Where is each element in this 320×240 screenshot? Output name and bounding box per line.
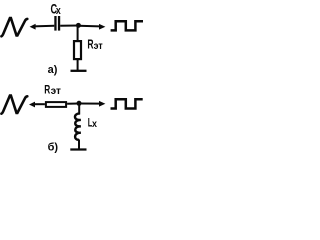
svg-text:а): а) <box>48 64 58 76</box>
capacitor C_x plates <box>54 16 56 31</box>
svg-text:x: x <box>56 5 61 17</box>
svg-text:эт: эт <box>51 86 61 97</box>
svg-text:x: x <box>92 118 97 130</box>
wire with right arrow to output (top) <box>78 25 99 28</box>
wire: resistor to node (bottom) <box>67 103 79 105</box>
wire: node down to resistor (top) <box>77 26 79 41</box>
inductor L_x coil <box>75 114 81 140</box>
ground (top) <box>71 70 87 72</box>
square-wave (meander) output icon (top) <box>111 21 143 30</box>
label R эт (bottom) <box>44 84 51 97</box>
wire: node down to inductor (bottom) <box>78 104 80 115</box>
wire: generator to capacitor (top) <box>34 25 55 28</box>
ground (bottom) <box>70 148 86 150</box>
label L x <box>88 117 93 130</box>
resistor R_эт (vertical) <box>74 41 81 59</box>
resistor R_эт (horizontal) <box>46 102 66 107</box>
wire: inductor to ground (bottom) <box>78 140 80 149</box>
label Cx <box>51 3 58 17</box>
wire: resistor to ground (top) <box>77 59 79 70</box>
svg-text:эт: эт <box>94 40 103 52</box>
node junction dot (top) <box>76 23 81 28</box>
arrowhead pointing left at generator <box>30 24 36 30</box>
wire with right arrow to output (bottom) <box>79 103 100 105</box>
square-wave (meander) output icon (bottom) <box>111 99 143 108</box>
svg-text:б): б) <box>48 141 59 153</box>
sine-wave generator symbol (bottom) <box>1 96 27 114</box>
wire: generator to resistor (bottom) <box>33 103 45 105</box>
wire: capacitor to node (top) <box>60 25 78 27</box>
node junction dot (bottom) <box>77 101 82 106</box>
svg-text:R: R <box>87 38 93 52</box>
label R эт (top) <box>87 38 93 52</box>
arrowhead pointing left at generator (bottom) <box>29 102 35 108</box>
sine-wave generator symbol (top) <box>1 18 27 36</box>
